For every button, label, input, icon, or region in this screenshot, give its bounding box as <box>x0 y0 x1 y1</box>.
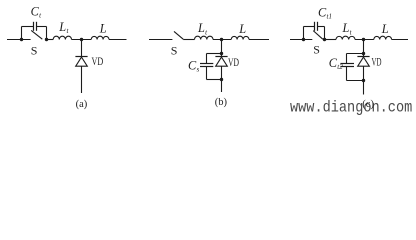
wire: (c) switch to Lt <box>325 39 337 41</box>
capacitor Ct right plate (a) <box>36 22 38 31</box>
node: (a) diode branch junction <box>80 38 83 41</box>
diode VD cathode bar <box>215 56 227 58</box>
wire: (c) cap loop left leg <box>303 27 305 40</box>
node: (c) cap loop left junction <box>302 38 305 41</box>
wire: (b) Lt to L <box>213 39 231 41</box>
wire: (b) right output wire <box>249 39 269 41</box>
wire: (b) vertical branch down <box>221 40 223 57</box>
inductor Lt (c) <box>336 36 355 39</box>
wire: (b) cap upper leg <box>206 54 208 64</box>
node: (b) cap loop top junction <box>220 52 223 55</box>
wire: (b) switch to Lt <box>183 39 194 41</box>
inductor Lt (a) <box>53 36 71 39</box>
capacitor Ct2 top plate (c) <box>340 63 354 65</box>
node: (c) cap loop right junction <box>323 38 326 41</box>
capacitor Ct left plate (a) <box>33 22 35 31</box>
node: (b) snubber branch junction <box>220 38 223 41</box>
capacitor Ct1 left plate (c) <box>314 22 316 31</box>
diode VD cathode bar <box>75 56 87 58</box>
switch S blade (b) <box>174 31 183 39</box>
node: (b) cap loop bottom junction <box>220 78 223 81</box>
wire: (c) cap loop right leg <box>324 27 326 40</box>
switch S blade (c) <box>313 31 323 40</box>
svg-text:S: S <box>31 44 38 58</box>
node: (c) snubber branch junction <box>362 38 365 41</box>
svg-text:L: L <box>381 22 389 36</box>
wire: (c) Lt to L <box>355 39 374 41</box>
wire: (c) loop top horizontal <box>347 53 364 55</box>
svg-text:VD: VD <box>372 56 382 68</box>
wire: (c) loop bottom horizontal <box>347 80 364 82</box>
capacitor Ct1 right plate (c) <box>317 22 319 31</box>
wire: (a) cap loop top-right segment <box>37 26 47 28</box>
inductor L (b) <box>231 36 249 39</box>
wire: (c) cap lower leg <box>346 67 348 81</box>
wire: (a) cap loop left leg <box>21 27 23 40</box>
capacitor Cs top plate (b) <box>200 63 213 65</box>
wire: (c) vertical below diode <box>363 66 365 94</box>
svg-text:VD: VD <box>92 56 104 68</box>
wire: (c) cap upper leg <box>346 54 348 64</box>
wire: (c) left input wire <box>290 39 312 41</box>
node: (c) cap loop bottom junction <box>362 79 365 82</box>
wire: (c) cap loop top-right <box>318 26 325 28</box>
diode VD triangle <box>216 57 228 66</box>
svg-text:(b): (b) <box>215 97 228 108</box>
inductor Lt (b) <box>195 36 214 39</box>
capacitor Cs bottom plate (b) <box>200 66 213 68</box>
svg-text:S: S <box>313 42 320 56</box>
svg-text:S: S <box>171 44 178 58</box>
capacitor Ct2 bottom plate (c) <box>340 66 354 68</box>
wire: (b) vertical below diode <box>221 66 223 92</box>
diode VD cathode bar <box>357 56 369 58</box>
svg-text:L: L <box>238 22 246 36</box>
wire: (b) cap lower leg <box>206 67 208 80</box>
inductor L (a) <box>91 36 109 39</box>
diode VD triangle <box>76 57 88 66</box>
svg-text:L: L <box>99 22 107 36</box>
node: (c) cap loop top junction <box>362 52 365 55</box>
svg-text:VD: VD <box>228 57 239 69</box>
wire: (b) loop bottom horizontal <box>207 79 222 81</box>
svg-text:(c): (c) <box>362 99 374 110</box>
wire: (a) cap loop top-left segment <box>22 26 34 28</box>
wire: (a) wire from switch to Lt <box>47 39 54 41</box>
node: (a) junction of snubber cap left leg with wire <box>20 38 23 41</box>
wire: (b) loop top horizontal <box>207 53 222 55</box>
wire: (c) vertical branch down <box>363 40 365 57</box>
wire: (a) right output wire <box>109 39 127 41</box>
diode VD triangle <box>358 57 370 66</box>
wire: (a) left input wire <box>7 39 31 41</box>
svg-text:www.diangon.com: www.diangon.com <box>290 99 412 116</box>
wire: (a) vertical below diode <box>81 66 83 93</box>
inductor L (c) <box>374 36 392 39</box>
wire: (a) cap loop right leg <box>46 27 48 40</box>
wire: (a) vertical branch to diode <box>81 40 83 57</box>
wire: (c) right output wire <box>392 39 408 41</box>
svg-text:(a): (a) <box>76 99 88 110</box>
wire: (b) left input wire <box>149 39 172 41</box>
wire: (c) cap loop top-left <box>304 26 315 28</box>
wire: (a) wire Lt to L <box>72 39 92 41</box>
node: (a) junction of cap right leg with wire <box>45 38 48 41</box>
switch S blade (a) <box>31 30 42 39</box>
